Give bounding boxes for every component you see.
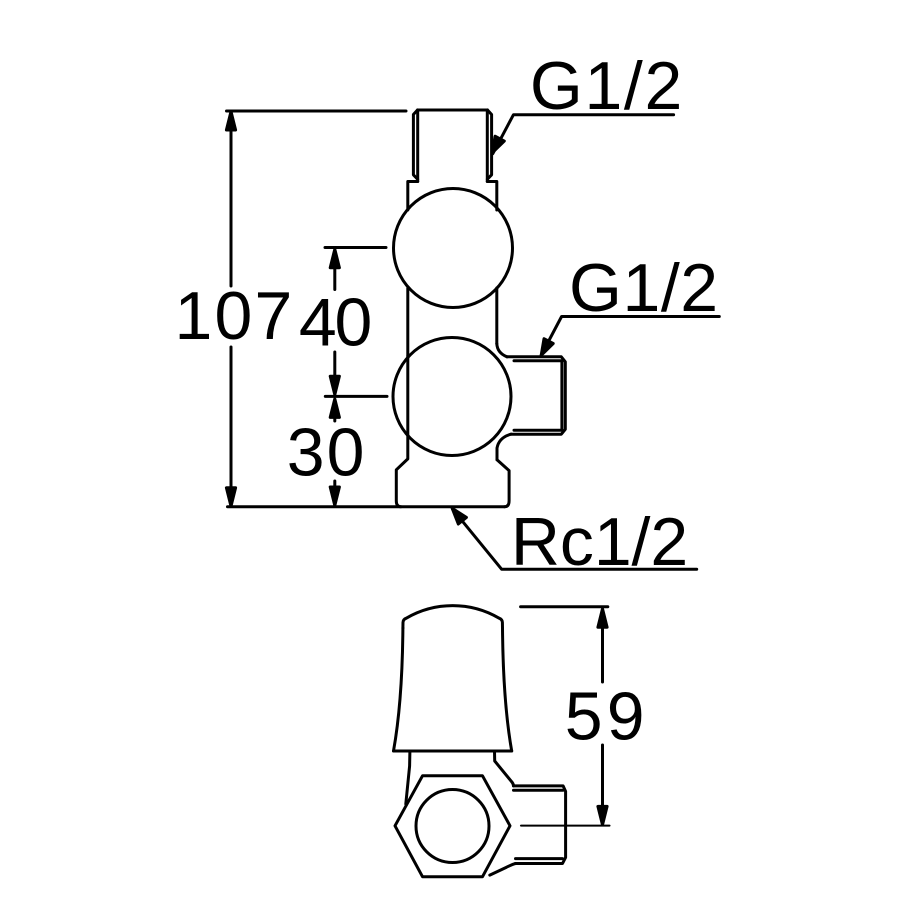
tick cap top (59) (521, 605, 608, 608)
side outlet fillet bottom (front view) (497, 434, 511, 460)
leader Rc1/2 (453, 509, 697, 569)
upper ball circle (394, 189, 513, 308)
hex nut (395, 776, 510, 877)
outlet bottom cone to hex (490, 864, 516, 876)
svg-text:G1/2: G1/2 (530, 48, 682, 124)
dimension line 107 (230, 129, 233, 489)
svg-text:Rc1/2: Rc1/2 (511, 504, 688, 580)
outlet outer profile (bottom view) (514, 786, 566, 864)
leader arrow Rc1/2 (452, 508, 466, 524)
arrow 40 bottom (330, 376, 339, 395)
hex bore circle (416, 790, 489, 863)
dimension line 59 (601, 626, 604, 807)
waist left line between circles (406, 288, 409, 356)
side outlet fillet top (front view) (497, 344, 507, 357)
body lower-right chamfer (497, 460, 509, 507)
arrow 30 bottom (330, 487, 339, 506)
cap top of bottom view (403, 606, 503, 628)
arrow 59 bottom (598, 806, 607, 825)
cap bottom edge (394, 750, 512, 753)
svg-text:G1/2: G1/2 (569, 250, 718, 326)
arrow 59 top (598, 609, 607, 628)
arrow 107 bottom (226, 488, 235, 507)
tick lower circle center (40 bottom / 30 top) (325, 395, 387, 398)
body lower-left chamfer (396, 356, 408, 507)
svg-text:107: 107 (175, 278, 293, 354)
neck right line to outlet cone (495, 751, 514, 786)
top pipe thread root lines (418, 110, 488, 182)
outlet thread root lines (bottom view) (514, 790, 564, 858)
lower ball circle (393, 338, 511, 456)
side outlet thread root lines (front view) (514, 361, 562, 430)
side outlet outer profile (front view) (507, 357, 565, 434)
neck left line (406, 751, 410, 804)
arrow 40 top (330, 249, 339, 268)
cap left side (394, 628, 403, 751)
leader arrow G1/2 side (541, 339, 553, 356)
dimension line 40 (333, 266, 336, 377)
cap right side (503, 628, 512, 751)
leader G1/2 top (493, 115, 674, 154)
top extension line for 107 (227, 110, 407, 113)
outlet centerline (521, 825, 610, 827)
leader G1/2 side (541, 317, 719, 356)
arrow 30 top (330, 399, 339, 418)
top pipe thread outer profile (front view) (413, 110, 491, 179)
body bottom edge with left extension line (228, 505, 505, 508)
dimension line 30 (333, 417, 336, 488)
tick upper circle center (40 top) (325, 246, 386, 249)
svg-text:40: 40 (299, 285, 372, 361)
arrow 107 top (226, 112, 235, 131)
waist right line above outlet (495, 288, 498, 344)
collar step under thread (408, 182, 497, 211)
leader arrow G1/2 top (492, 136, 504, 153)
